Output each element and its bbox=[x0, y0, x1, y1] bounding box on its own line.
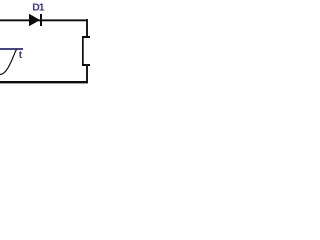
wire right vertical upper bbox=[86, 19, 88, 38]
svg-text:D1: D1 bbox=[32, 3, 45, 14]
resistor R1 box bbox=[82, 36, 90, 66]
diode D1 bbox=[29, 14, 42, 26]
wire top horizontal bbox=[0, 19, 88, 21]
wire bottom horizontal bbox=[0, 81, 88, 83]
waveform axis (blue) bbox=[0, 48, 23, 50]
wire right vertical lower bbox=[86, 64, 88, 83]
svg-text:t: t bbox=[19, 50, 23, 61]
waveform sine curve bbox=[0, 49, 17, 74]
